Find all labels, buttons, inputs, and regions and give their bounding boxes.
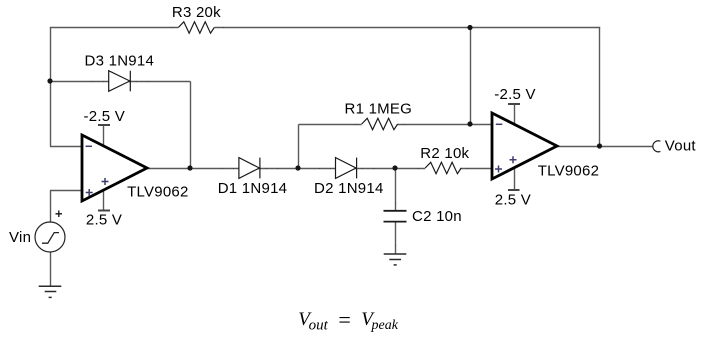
wire Vin vertical	[50, 191, 52, 223]
diode D1	[239, 158, 260, 179]
wire vertical D1-D2 node up to R1 row	[298, 125, 300, 169]
ground below Vin	[39, 286, 62, 297]
diode D3	[109, 71, 131, 92]
svg-text:-2.5 V: -2.5 V	[494, 86, 536, 103]
junction node U2 output (599.5,146)	[597, 143, 602, 148]
svg-text:D3 1N914: D3 1N914	[85, 52, 155, 69]
op-amp U1 plus supply marker	[102, 178, 109, 185]
svg-text:Vin: Vin	[9, 229, 31, 246]
wire D3 vertical to U1 output	[190, 82, 192, 169]
wire top feedback from node A to R3	[50, 27, 179, 29]
op-amp U2 plus supply marker	[510, 156, 517, 163]
wire Vin to ground	[50, 252, 52, 287]
svg-text:TLV9062: TLV9062	[538, 162, 600, 179]
wire right vertical feedback to op-amp U2 output	[599, 28, 601, 147]
op-amp U1 minus marker	[86, 145, 93, 147]
resistor R3	[178, 22, 214, 33]
svg-text:2.5 V: 2.5 V	[86, 212, 122, 229]
wire Vin to U1 non-inverting input	[50, 190, 82, 192]
junction node C2 (395,168)	[392, 165, 397, 170]
svg-text:TLV9062: TLV9062	[127, 183, 189, 200]
formula Vout = Vpeak	[298, 307, 399, 333]
svg-text:2.5 V: 2.5 V	[495, 192, 531, 209]
wire capacitor to ground	[395, 222, 397, 255]
wire U2 negative supply tap	[514, 104, 516, 129]
op-amp U2 plus input marker	[495, 166, 502, 173]
op-amp U2	[492, 113, 557, 179]
op-amp U1	[82, 135, 147, 201]
svg-text:D2 1N914: D2 1N914	[314, 180, 384, 197]
svg-text:Vout: Vout	[665, 138, 697, 155]
wire left vertical feedback	[50, 28, 52, 147]
source Vin waveform	[42, 233, 59, 244]
svg-text:-2.5 V: -2.5 V	[84, 108, 126, 125]
resistor R1	[362, 118, 398, 129]
svg-text:peak: peak	[371, 318, 399, 333]
power tap bar -2.5V U1	[98, 124, 110, 126]
svg-text:R1 1MEG: R1 1MEG	[344, 101, 412, 118]
wire R1 row left	[299, 124, 362, 126]
wire R2 to U2 non-inverting input	[460, 168, 492, 170]
wire top feedback R3 to right corner	[214, 27, 600, 29]
wire D3 row	[50, 81, 191, 83]
wire U1 inverting input	[50, 146, 82, 148]
junction node top feedback (470,27.5)	[467, 25, 472, 30]
wire vertical from top feedback to R1 node	[470, 28, 472, 125]
svg-text:C2 10n: C2 10n	[412, 208, 462, 225]
source Vin plus sign	[56, 211, 63, 218]
wire R1 row right to U2 inverting input	[398, 124, 492, 126]
svg-text:out: out	[309, 317, 329, 333]
wire U1 positive supply tap	[103, 186, 105, 211]
junction node A (50,81)	[47, 78, 52, 83]
pin tick marks on wires	[92, 27, 468, 246]
svg-text:R2 10k: R2 10k	[420, 145, 469, 162]
ground below C2	[384, 254, 407, 265]
power tap bar 2.5V U2	[508, 189, 520, 191]
svg-text:R3 20k: R3 20k	[172, 4, 221, 21]
junction node D3/U1 output (190,168)	[187, 165, 192, 170]
op-amp U1 plus input marker	[86, 189, 93, 196]
wire U1 negative supply tap	[103, 125, 105, 150]
capacitor C2	[384, 211, 407, 222]
wire main row U1 output through D1 D2 to R2	[147, 168, 425, 170]
wire U2 positive supply tap	[514, 164, 516, 190]
wire C2 node down to capacitor	[395, 169, 397, 211]
diode D2	[336, 158, 357, 179]
op-amp U2 minus marker	[496, 123, 503, 125]
resistor R2	[425, 162, 461, 173]
terminal Vout arc	[653, 141, 661, 152]
power tap bar 2.5V U1	[98, 210, 110, 212]
svg-text:D1 1N914: D1 1N914	[218, 180, 288, 197]
source Vin circle	[35, 222, 65, 252]
power tap bar -2.5V U2	[508, 103, 520, 105]
svg-text:=: =	[337, 307, 352, 332]
junction node R1/U2 minus (470,124)	[467, 121, 472, 126]
junction node D1-D2 (298,168)	[295, 165, 300, 170]
wire U2 output to Vout terminal	[557, 146, 654, 148]
